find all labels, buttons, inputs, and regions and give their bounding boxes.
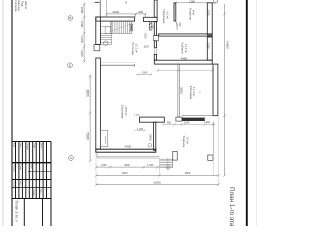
svg-text:800: 800 [167,122,172,125]
wall W11 big room right [213,64,218,116]
svg-text:11,7 м²: 11,7 м² [184,44,188,53]
svg-text:Изм.: Изм. [13,143,15,148]
extension lines bottom [96,65,218,186]
stair landing [100,27,132,34]
svg-text:2800: 2800 [124,164,130,167]
svg-text:2760: 2760 [207,10,211,17]
stair column circle [104,41,108,45]
svg-text:Подп.: Подп. [33,143,35,149]
svg-text:Б: Б [125,1,127,5]
svg-text:Н.контр.: Н.контр. [13,181,15,190]
winder steps [100,21,111,45]
wall W8 right outer with window dim 2760 [207,3,212,35]
svg-text:5980: 5980 [85,133,89,140]
svg-text:1300: 1300 [80,21,84,28]
svg-text:2,980: 2,980 [189,0,196,3]
svg-text:Лист: Лист [40,189,42,194]
left outer wall lower W17b [96,58,101,149]
stair direction line [109,24,131,32]
entrance axis circle [166,166,169,169]
svg-text:Согласов.: Согласов. [14,0,17,12]
svg-text:№ док.: № док. [26,143,29,150]
terrace pier bottom right [208,155,213,160]
wall W5 hall/bedroom divider [174,3,176,21]
big room inner bottom line [182,115,213,117]
svg-text:8 м²: 8 м² [192,10,196,15]
svg-text:Разраб.: Разраб. [13,165,15,173]
dim chain under W12 [162,123,215,126]
title block table outer [12,142,51,227]
svg-text:1,200: 1,200 [137,128,144,131]
window in cabinet left wall [155,48,157,55]
svg-text:1040: 1040 [184,121,190,124]
bottom dim chain 1 [95,166,159,169]
right dimension chain C [223,4,226,177]
svg-text:3800: 3800 [85,90,89,97]
left outer wall upper W17a [96,17,101,45]
kitchen counter [100,130,107,146]
wall W2 [144,17,158,21]
svg-text:Столовая: Столовая [189,86,193,100]
svg-text:4,1 м²: 4,1 м² [165,12,169,20]
axis bubble top right (cut) [214,0,218,3]
wall W1 top of stair hall [96,17,135,21]
axis bubble row left [68,16,74,161]
top dimension 2980 bedroom [175,1,217,4]
stair treads [111,21,132,33]
svg-text:Прихожая: Прихожая [162,10,166,24]
svg-text:Лист: Лист [19,143,21,148]
terrace slab lines [97,152,160,158]
svg-text:Б: Б [69,63,71,67]
wall W13 big room left thin [178,64,180,117]
table bottom section columns [24,199,42,227]
svg-text:900: 900 [138,10,143,14]
left dimension chain A [83,3,86,63]
wall line mid horizontal [100,64,134,66]
wall W14 dining divider horizontal [140,117,165,122]
wall stub above W1 [99,0,101,17]
pier right of door [176,117,182,121]
wall W6b [154,41,156,48]
svg-text:Подп.: Подп. [21,1,24,8]
svg-text:Столовая: Столовая [121,105,125,119]
sub dim line below W10 [157,69,215,72]
room number circle kitchen [148,143,152,147]
svg-text:1300: 1300 [80,36,84,43]
svg-text:1500: 1500 [80,7,84,14]
svg-text:Стадия: Стадия [33,189,35,197]
svg-text:14500: 14500 [225,41,229,50]
svg-text:4460: 4460 [181,56,188,60]
entrance steps [159,159,172,168]
svg-text:Дата: Дата [40,143,42,149]
table row lines dense [16,142,47,199]
page edge shadow left [2,0,4,226]
svg-text:Кабинет: Кабинет [181,43,185,55]
svg-text:План 1-го эта: План 1-го эта [228,187,235,226]
sheet frame line left [11,0,13,226]
door niche square [154,35,159,40]
svg-text:1000: 1000 [142,71,148,74]
svg-text:В: В [69,16,71,20]
svg-text:Утв.: Утв. [19,181,21,186]
svg-text:2400: 2400 [148,134,152,141]
svg-text:Инв.подл.: Инв.подл. [17,0,20,12]
svg-text:ГИП: ГИП [30,165,32,170]
svg-text:1,200: 1,200 [147,164,154,167]
svg-text:10,5 м²: 10,5 м² [124,106,128,115]
dim 1200 kitchen door [134,129,146,132]
svg-text:2330: 2330 [207,43,211,50]
left dimension chain B [89,75,92,163]
svg-text:1000: 1000 [143,46,149,49]
pier with hatch below W2 [149,22,152,30]
svg-text:1,000: 1,000 [204,121,211,124]
corner stamp texts top-left [14,0,27,12]
wall W12 thick band [182,118,205,121]
svg-text:1300: 1300 [144,33,147,39]
svg-text:Терраса: Терраса [182,136,186,148]
svg-text:10000: 10000 [153,181,161,185]
wall W9 cabinet right with dim 2330 [207,37,212,60]
door swing bedroom [176,22,178,30]
svg-text:3000: 3000 [180,87,184,94]
wall W10 cabinet bottom [154,60,212,64]
bottom dim chain 3 [95,183,220,186]
svg-text:Инв.№: Инв.№ [24,1,27,9]
left wall pier [94,45,100,51]
svg-text:2000: 2000 [112,10,119,14]
terrace right edge [212,121,214,155]
wall W7 cabinet top [159,34,213,36]
svg-text:3200: 3200 [122,172,128,175]
wall W14 vertical [154,122,156,150]
table small texts [13,143,42,197]
dim 1000 door mid wall [136,73,152,76]
sheet edge thick line right [246,0,248,226]
svg-text:1,200: 1,200 [100,164,107,167]
svg-text:4400: 4400 [125,144,132,148]
stair right bar with X [131,24,133,31]
svg-text:17,1 м²: 17,1 м² [135,44,139,53]
svg-text:А: А [70,156,72,160]
svg-text:1400: 1400 [80,50,84,57]
svg-text:17,3 м²: 17,3 м² [192,87,196,96]
bottom dim chain 2 [95,174,220,177]
wall W6a cabinet left upper [154,22,156,36]
page edge faint right [256,0,258,226]
svg-text:План 1-го э: План 1-го э [14,201,19,222]
wall W6c [154,54,156,60]
hall left wall W4 [154,0,157,17]
porch wall W20 [173,151,177,160]
svg-text:4460: 4460 [185,171,191,175]
top dimension line 2000/900 [105,0,147,17]
svg-text:1,290: 1,290 [134,115,140,117]
svg-text:12 м²: 12 м² [185,137,189,144]
svg-text:Гостиная: Гостиная [131,42,135,55]
kitchen bottom wall W19 [96,149,156,152]
svg-text:Пров.: Пров. [19,165,21,171]
